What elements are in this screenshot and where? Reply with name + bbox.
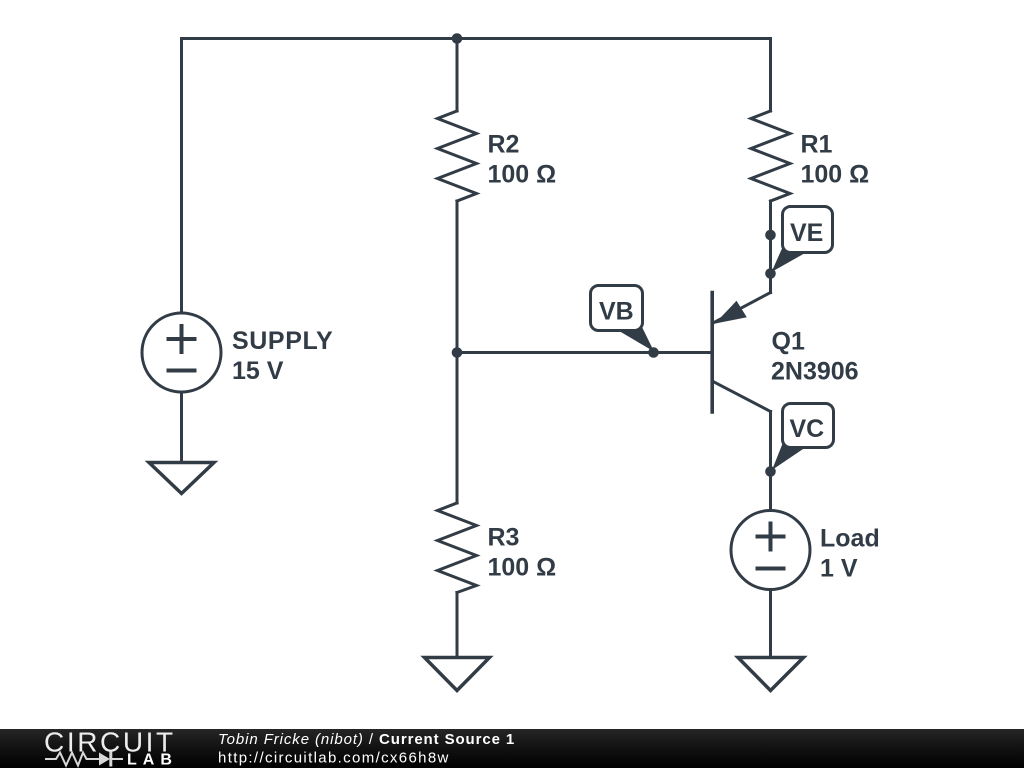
svg-text:Q1: Q1 [772,327,805,355]
voltage source Load (symbol) [731,511,810,590]
wire: base wire from node to Q1 [457,351,710,354]
CircuitLab logo wordmark [44,727,176,758]
svg-text:SUPPLY: SUPPLY [232,327,333,355]
svg-text:VB: VB [599,298,634,326]
svg-text:VC: VC [790,415,825,443]
wire: base node to R3 [456,353,459,504]
wire: R3 bottom lead [456,593,459,658]
wire: R1 top lead [769,39,772,112]
Load source circle [731,511,810,590]
node VE (junction dot on emitter wire) [765,230,776,241]
flag VB (node VB) [591,286,659,358]
label: R1 name and value [801,131,870,189]
footer bar [0,729,1024,768]
VB flag box [591,286,643,331]
svg-text:2N3906: 2N3906 [771,357,859,385]
VC flag pointer [772,440,806,470]
svg-text:100 Ω: 100 Ω [488,161,557,189]
junction: base node R2/R3/base wire [452,347,463,358]
svg-text:VE: VE [790,219,823,247]
resistor R3 [438,503,477,593]
wire: supply negative lead [180,392,183,462]
wire: R2 bottom to base node [456,201,459,353]
node VB (junction dot on base wire) [648,347,659,358]
wire: load negative lead [769,590,772,658]
label: SUPPLY name and value [232,327,333,385]
wire: R1 bottom to emitter [769,201,772,293]
svg-text:Load: Load [820,525,880,553]
label: Q1 name and part number [771,327,859,385]
label: R2 name and value [488,131,557,189]
svg-text:100 Ω: 100 Ω [801,161,870,189]
VE flag pointer [772,244,807,272]
SUPPLY source circle [142,313,221,392]
svg-text:100 Ω: 100 Ω [488,554,557,582]
label: R3 name and value [488,524,557,582]
flag VE (node VE) [765,207,832,279]
Q1 base bar [710,293,714,413]
VB flag pointer [617,327,655,352]
ground: R3 [425,658,490,691]
resistor R2 [438,111,477,201]
wire: collector to VC node and Load [769,412,772,511]
ground: load [738,658,804,691]
svg-text:R3: R3 [488,524,520,552]
svg-text:1 V: 1 V [820,555,858,583]
svg-text:15 V: 15 V [232,357,284,385]
node VC (junction dot on collector wire) [765,466,776,477]
SUPPLY minus mark [169,369,195,373]
svg-text:R2: R2 [488,131,520,159]
wire: supply positive lead (left vertical) [180,39,183,314]
wire: R2 top lead [456,39,459,112]
svg-text:R1: R1 [801,131,833,159]
label: Load name and value [820,525,880,583]
Q1 collector lead [714,382,771,412]
CircuitLab logo resistor-diode glyph [45,752,123,767]
Q1 emitter arrow (PNP) [715,301,747,324]
Load plus mark [758,524,784,550]
voltage source SUPPLY (symbol) [142,313,221,392]
ground: supply [149,463,214,494]
SUPPLY plus mark [169,326,195,352]
VE flag box [783,207,833,253]
VC flag box [783,404,834,448]
Load minus mark [758,567,784,571]
junction: emitter wire anchor dot [765,268,776,279]
transistor Q1 2N3906 (PNP) [712,293,770,413]
wire: top rail from supply to R1 [182,37,771,40]
resistor R1 [751,111,790,201]
Q1 emitter lead [714,293,771,323]
flag VC (node VC) [765,404,833,477]
junction: top rail / R2 [452,33,463,44]
